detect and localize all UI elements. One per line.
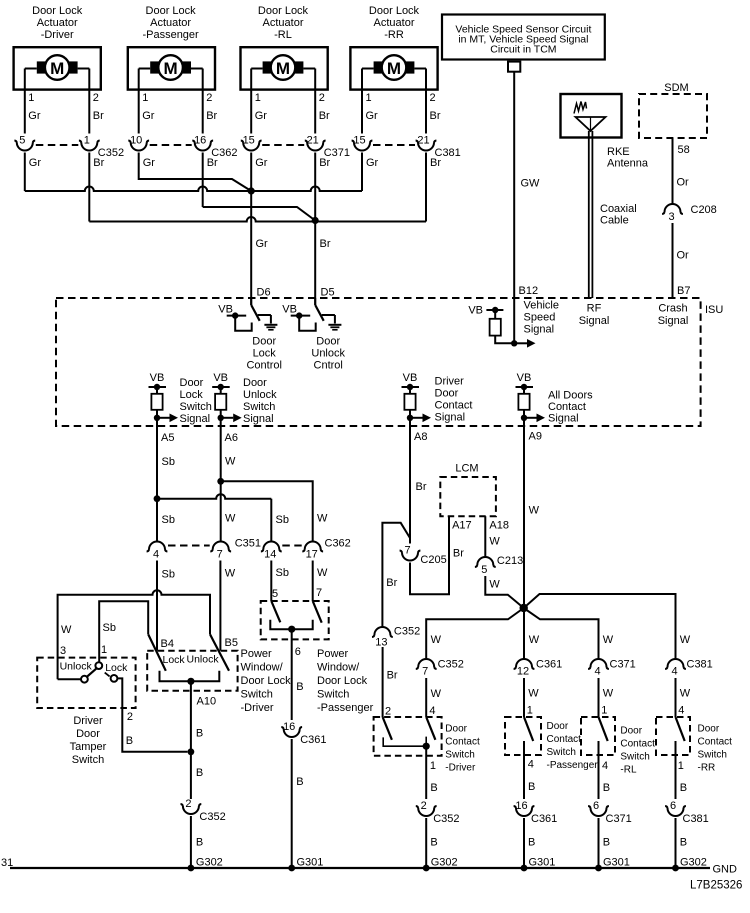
switch blade B4 xyxy=(148,634,166,671)
svg-text:31: 31 xyxy=(1,857,13,869)
svg-text:2: 2 xyxy=(430,92,436,104)
svg-text:B12: B12 xyxy=(519,285,539,297)
svg-text:Actuator: Actuator xyxy=(374,17,415,29)
svg-text:Door Lock: Door Lock xyxy=(258,5,309,17)
ground G302 RR contact xyxy=(672,865,679,872)
svg-text:Door: Door xyxy=(76,728,100,740)
svg-text:6: 6 xyxy=(593,800,599,812)
vehicle speed signal input xyxy=(513,298,515,343)
svg-text:Door: Door xyxy=(435,388,459,400)
svg-text:W: W xyxy=(317,567,328,579)
svg-text:Sb: Sb xyxy=(162,514,175,526)
motor M4 xyxy=(382,55,407,80)
svg-text:Sb: Sb xyxy=(276,514,289,526)
svg-text:Control: Control xyxy=(246,360,281,372)
tamper switch blade xyxy=(87,668,97,676)
RKE antenna box xyxy=(561,94,622,138)
ground rail 31 xyxy=(10,867,710,869)
svg-text:W: W xyxy=(680,688,691,700)
node lock bus junction xyxy=(248,187,255,194)
svg-text:Br: Br xyxy=(320,238,331,250)
svg-text:Door Lock: Door Lock xyxy=(241,675,292,687)
svg-text:Contact: Contact xyxy=(445,737,480,748)
svg-text:Unlock: Unlock xyxy=(243,389,277,401)
svg-text:5: 5 xyxy=(481,564,487,576)
wire Sb C362-14 to passenger switch xyxy=(270,561,272,602)
svg-text:B: B xyxy=(680,837,687,849)
wire 4 black RL xyxy=(598,741,600,799)
wire 6 black xyxy=(291,629,293,720)
ground G302 A10 xyxy=(188,865,195,872)
svg-text:3: 3 xyxy=(60,645,66,657)
svg-text:B: B xyxy=(603,837,610,849)
svg-text:15: 15 xyxy=(243,134,255,146)
svg-text:Cable: Cable xyxy=(600,215,629,227)
svg-text:C361: C361 xyxy=(300,734,326,746)
svg-text:B5: B5 xyxy=(225,637,238,649)
svg-text:A18: A18 xyxy=(489,520,509,532)
connector C352 pin 1 xyxy=(79,141,100,151)
svg-text:16: 16 xyxy=(283,721,295,733)
svg-text:W: W xyxy=(680,634,691,646)
svg-text:Lock: Lock xyxy=(105,662,128,674)
svg-text:W: W xyxy=(489,579,500,591)
svg-text:Gr: Gr xyxy=(255,157,268,169)
wire Sb C351-4 to B4 xyxy=(156,561,158,651)
svg-text:W: W xyxy=(603,688,614,700)
svg-text:A8: A8 xyxy=(414,431,427,443)
svg-text:58: 58 xyxy=(678,144,690,156)
svg-text:Unlock: Unlock xyxy=(311,348,345,360)
svg-text:4: 4 xyxy=(678,705,684,717)
svg-text:7: 7 xyxy=(316,587,322,599)
connector C371 pin 21 xyxy=(305,141,326,151)
motor M2 xyxy=(158,55,183,80)
wire Br RL down to ISU D5 xyxy=(314,153,316,306)
svg-text:Window/: Window/ xyxy=(241,662,284,674)
svg-text:Switch: Switch xyxy=(547,747,576,758)
motor M1 xyxy=(45,55,70,80)
svg-text:1: 1 xyxy=(255,92,261,104)
wire B RR to G302 xyxy=(675,818,677,868)
ISU box xyxy=(56,298,701,426)
wire B to G301 xyxy=(291,739,293,868)
connector C352 pin 7 lower xyxy=(416,659,437,669)
connector C362b pin 17 xyxy=(302,542,323,552)
svg-text:A10: A10 xyxy=(197,696,217,708)
driver PW switch contacts xyxy=(160,671,220,682)
svg-text:Signal: Signal xyxy=(579,315,610,327)
svg-text:7: 7 xyxy=(422,666,428,678)
svg-text:W: W xyxy=(225,456,236,468)
driver contact blade 2 xyxy=(383,717,392,740)
svg-text:Antenna: Antenna xyxy=(607,158,649,170)
svg-text:Sb: Sb xyxy=(162,456,175,468)
svg-text:GND: GND xyxy=(713,864,738,876)
svg-text:4: 4 xyxy=(153,549,159,561)
svg-text:Coaxial: Coaxial xyxy=(600,203,637,215)
connector C361 pin 16 lower xyxy=(514,806,535,816)
svg-text:B: B xyxy=(296,776,303,788)
wire W branch to C362 pin 17 xyxy=(221,481,313,541)
svg-text:G301: G301 xyxy=(297,857,324,869)
wire W C351-7 to B5 xyxy=(219,561,221,651)
svg-text:L7B25326: L7B25326 xyxy=(690,880,742,892)
svg-text:Br: Br xyxy=(93,110,104,122)
svg-text:B: B xyxy=(196,767,203,779)
wire pin2 C352 xyxy=(88,69,90,134)
wire Br A8 to C205 xyxy=(409,426,411,544)
connector C361 pin 16 mid xyxy=(281,727,302,737)
svg-text:Door: Door xyxy=(316,336,340,348)
svg-text:W: W xyxy=(431,634,442,646)
svg-text:Driver: Driver xyxy=(435,376,465,388)
svg-text:W: W xyxy=(225,568,236,580)
wire Br branch to C352 pin 13 xyxy=(382,523,410,627)
svg-text:2: 2 xyxy=(185,798,191,810)
node driver contact junction xyxy=(423,743,430,750)
wire pin2 C362 xyxy=(202,69,204,134)
svg-text:D5: D5 xyxy=(321,287,335,299)
svg-text:B: B xyxy=(680,782,687,794)
svg-text:2: 2 xyxy=(127,711,133,723)
connector C381 pin 4 xyxy=(665,659,686,669)
RL contact blade xyxy=(599,717,608,741)
wire Or to ISU B7 xyxy=(672,223,674,298)
svg-text:1: 1 xyxy=(101,644,107,656)
connector C205 pin 7 xyxy=(400,551,421,561)
svg-text:4: 4 xyxy=(602,760,608,772)
wire Br passenger to unlock bus xyxy=(202,153,204,208)
svg-text:G301: G301 xyxy=(603,857,630,869)
svg-text:B: B xyxy=(196,837,203,849)
wire Br C352-13 to door contact driver xyxy=(382,647,384,717)
connector C352 pin 13 xyxy=(372,627,393,637)
door lock control driver switch xyxy=(250,298,252,305)
svg-text:1: 1 xyxy=(430,760,436,772)
svg-text:1: 1 xyxy=(678,760,684,772)
svg-text:Unlock: Unlock xyxy=(187,654,220,666)
svg-text:B: B xyxy=(528,837,535,849)
door lock actuator RR box xyxy=(350,47,437,89)
ground G302 driver contact xyxy=(423,865,430,872)
svg-text:6: 6 xyxy=(295,646,301,658)
connector C361 pin 12 xyxy=(514,659,535,669)
svg-text:Switch: Switch xyxy=(317,689,349,701)
svg-text:Br: Br xyxy=(319,110,330,122)
passenger contact blade xyxy=(524,717,533,741)
svg-text:VB: VB xyxy=(517,372,532,384)
svg-text:Signal: Signal xyxy=(435,412,466,424)
wire 4 black passenger xyxy=(523,741,525,799)
svg-text:-RR: -RR xyxy=(698,763,716,774)
svg-text:4: 4 xyxy=(429,705,435,717)
door lock actuator Driver box xyxy=(14,47,101,89)
connector C371 dashed link xyxy=(262,144,304,146)
svg-text:Br: Br xyxy=(207,157,218,169)
svg-text:Door Lock: Door Lock xyxy=(317,675,368,687)
svg-text:VB: VB xyxy=(213,372,228,384)
svg-text:VB: VB xyxy=(150,372,165,384)
svg-text:RKE: RKE xyxy=(607,146,630,158)
tamper switch pivot xyxy=(95,662,102,669)
connector C381 pin 6 lower xyxy=(665,806,686,816)
wire pin1 C371 xyxy=(250,69,252,134)
svg-text:2: 2 xyxy=(385,706,391,718)
svg-text:2: 2 xyxy=(421,800,427,812)
connector C208 pin 3 xyxy=(662,204,683,214)
svg-text:Br: Br xyxy=(206,110,217,122)
svg-text:2: 2 xyxy=(319,92,325,104)
svg-text:G301: G301 xyxy=(529,857,556,869)
svg-text:C352: C352 xyxy=(394,626,420,638)
svg-text:C352: C352 xyxy=(438,659,464,671)
svg-text:C361: C361 xyxy=(536,659,562,671)
svg-text:16: 16 xyxy=(515,800,527,812)
driver contact blade 4 xyxy=(426,717,435,740)
svg-text:A6: A6 xyxy=(225,432,238,444)
svg-text:M: M xyxy=(50,59,64,78)
wire Br C205 to LCM A17 xyxy=(410,516,449,594)
door unlock control driver switch xyxy=(314,298,316,305)
connector C351 pin 7 xyxy=(210,542,231,552)
connector C381 pin 15 xyxy=(352,141,373,151)
svg-text:Contact: Contact xyxy=(548,401,586,413)
connector C371 pin 6 lower xyxy=(588,806,609,816)
wire W A9 to junction xyxy=(523,426,525,608)
svg-text:4: 4 xyxy=(528,759,534,771)
svg-text:21: 21 xyxy=(307,134,319,146)
svg-text:Br: Br xyxy=(430,157,441,169)
svg-text:Contact: Contact xyxy=(435,400,473,412)
svg-text:Sb: Sb xyxy=(162,569,175,581)
unlock bus wire xyxy=(89,217,426,222)
svg-text:-Passenger: -Passenger xyxy=(547,760,599,771)
wire W to driver contact pin 4 xyxy=(425,678,427,717)
wire W A6 to C351 xyxy=(220,426,222,542)
svg-text:B: B xyxy=(296,681,303,693)
svg-text:D6: D6 xyxy=(257,287,271,299)
node tamper join xyxy=(188,748,195,755)
svg-text:-Driver: -Driver xyxy=(241,702,274,714)
svg-text:21: 21 xyxy=(417,134,429,146)
svg-text:Door: Door xyxy=(243,377,267,389)
svg-text:G302: G302 xyxy=(680,857,707,869)
svg-text:Speed: Speed xyxy=(524,312,556,324)
svg-text:W: W xyxy=(431,688,442,700)
svg-text:Door Lock: Door Lock xyxy=(369,5,420,17)
svg-text:Unlock: Unlock xyxy=(60,661,93,673)
svg-text:Gr: Gr xyxy=(142,110,155,122)
svg-text:Switch: Switch xyxy=(445,750,474,761)
svg-text:C381: C381 xyxy=(683,813,709,825)
svg-text:Br: Br xyxy=(319,157,330,169)
svg-text:Signal: Signal xyxy=(524,324,555,336)
wire Sb A5 to C351 xyxy=(156,426,158,542)
svg-text:SDM: SDM xyxy=(664,82,688,94)
svg-text:VB: VB xyxy=(282,304,297,316)
svg-text:7: 7 xyxy=(217,549,223,561)
connector C371 pin 15 xyxy=(241,141,262,151)
wire pin1 C362 xyxy=(138,69,140,134)
svg-text:Door: Door xyxy=(620,726,642,737)
wire Br passenger horizontal xyxy=(203,207,316,221)
svg-text:-Passenger: -Passenger xyxy=(142,29,199,41)
wire Br driver to unlock bus xyxy=(88,153,90,222)
door contact switch RR box xyxy=(656,717,690,755)
svg-text:W: W xyxy=(317,513,328,525)
svg-text:Br: Br xyxy=(93,157,104,169)
svg-text:Door: Door xyxy=(445,724,467,735)
svg-text:Contact: Contact xyxy=(547,734,582,745)
switch blade 7 xyxy=(313,601,322,623)
svg-text:Switch: Switch xyxy=(72,754,104,766)
svg-text:Crash: Crash xyxy=(658,303,687,315)
svg-text:Gr: Gr xyxy=(256,238,269,250)
wire W junction down to C361 xyxy=(523,608,525,659)
svg-text:2: 2 xyxy=(93,92,99,104)
wire W LCM A18 to C213 xyxy=(484,516,486,557)
wire pin1 C352 xyxy=(24,69,26,134)
wire B passenger to G301 xyxy=(523,818,525,868)
passenger PW switch contacts xyxy=(270,620,312,630)
svg-text:VB: VB xyxy=(403,372,418,384)
node passenger PW junction xyxy=(288,626,295,633)
connector C351 dashed link xyxy=(168,545,210,547)
switch blade B5 xyxy=(210,634,229,671)
connector C352 pin 5 xyxy=(14,141,35,151)
node A5 branch xyxy=(154,495,161,502)
svg-text:14: 14 xyxy=(264,549,276,561)
svg-text:M: M xyxy=(276,59,290,78)
svg-text:5: 5 xyxy=(272,588,278,600)
wire W junction to C371 xyxy=(524,608,599,659)
wire B driver to G302 xyxy=(425,818,427,868)
connector C362 pin 10 xyxy=(128,141,149,151)
wire Gr passenger to lock bus xyxy=(139,153,252,192)
vehicle speed sensor circuit box xyxy=(442,15,605,60)
svg-text:Power: Power xyxy=(241,648,273,660)
wire W junction to C381 xyxy=(524,594,676,659)
svg-text:GW: GW xyxy=(521,178,541,190)
ground G301 passenger PW xyxy=(288,865,295,872)
svg-text:-Passenger: -Passenger xyxy=(317,702,374,714)
LCM box xyxy=(440,477,496,516)
svg-text:-Driver: -Driver xyxy=(41,29,74,41)
coaxial cable wires xyxy=(588,131,590,298)
svg-text:Driver: Driver xyxy=(73,715,103,727)
svg-text:12: 12 xyxy=(517,666,529,678)
svg-text:C371: C371 xyxy=(606,813,632,825)
door contact switch driver box xyxy=(374,717,442,756)
svg-text:C213: C213 xyxy=(497,555,523,567)
wire B RL to G301 xyxy=(598,818,600,868)
wire tamper pin 2 to A10 xyxy=(117,678,187,751)
svg-text:B: B xyxy=(528,781,535,793)
wire A10 black to ground xyxy=(190,681,192,799)
svg-text:Switch: Switch xyxy=(243,401,275,413)
svg-text:Signal: Signal xyxy=(243,413,274,425)
svg-text:Power: Power xyxy=(317,648,349,660)
svg-text:Sb: Sb xyxy=(103,622,116,634)
wire Gr driver to lock bus xyxy=(24,153,26,192)
svg-text:Circuit in TCM: Circuit in TCM xyxy=(490,44,556,56)
antenna symbol xyxy=(576,117,606,131)
wire SDM pin 58 xyxy=(672,138,674,204)
svg-text:Door: Door xyxy=(180,377,204,389)
svg-text:W: W xyxy=(529,505,540,517)
svg-text:VB: VB xyxy=(218,304,233,316)
node unlock bus junction xyxy=(312,217,319,224)
svg-text:1: 1 xyxy=(601,705,607,717)
svg-text:C205: C205 xyxy=(420,554,446,566)
svg-text:Switch: Switch xyxy=(698,750,727,761)
connector C362 dashed link xyxy=(150,144,192,146)
svg-text:1: 1 xyxy=(527,705,533,717)
node A6 branch xyxy=(217,478,224,485)
wire pin1 C381 xyxy=(361,69,363,134)
svg-text:Sb: Sb xyxy=(276,567,289,579)
svg-text:Actuator: Actuator xyxy=(263,17,304,29)
wire W to RR contact pin 4 xyxy=(675,678,677,717)
svg-text:Actuator: Actuator xyxy=(150,17,191,29)
svg-text:W: W xyxy=(528,688,539,700)
svg-text:7: 7 xyxy=(404,544,410,556)
svg-text:C352: C352 xyxy=(433,813,459,825)
wire B to G302 xyxy=(190,816,192,868)
svg-text:G302: G302 xyxy=(196,857,223,869)
svg-text:3: 3 xyxy=(668,211,674,223)
svg-text:Signal: Signal xyxy=(658,315,689,327)
svg-text:Vehicle: Vehicle xyxy=(524,300,559,312)
wire pin2 C371 xyxy=(314,69,316,134)
svg-text:17: 17 xyxy=(306,549,318,561)
svg-text:Window/: Window/ xyxy=(317,662,360,674)
wire Gr RR to lock bus xyxy=(361,153,363,192)
svg-text:Signal: Signal xyxy=(548,413,579,425)
svg-text:Cntrol: Cntrol xyxy=(314,360,343,372)
svg-text:Gr: Gr xyxy=(255,110,268,122)
door lock actuator Passenger box xyxy=(128,47,215,89)
svg-text:1: 1 xyxy=(142,92,148,104)
connector C362b pin 14 xyxy=(261,542,282,552)
svg-text:B: B xyxy=(430,837,437,849)
door lock actuator RL box xyxy=(241,47,328,89)
connector C213 pin 5 xyxy=(475,557,496,567)
svg-text:Br: Br xyxy=(453,548,464,560)
svg-text:W: W xyxy=(489,536,500,548)
svg-text:B: B xyxy=(603,782,610,794)
svg-text:C351: C351 xyxy=(235,538,261,550)
connector C351 pin 4 xyxy=(147,542,168,552)
svg-text:Or: Or xyxy=(677,177,690,189)
svg-text:10: 10 xyxy=(130,134,142,146)
wire W C362-17 to passenger switch xyxy=(312,561,314,602)
svg-text:All Doors: All Doors xyxy=(548,390,593,402)
svg-text:2: 2 xyxy=(206,92,212,104)
connector C362 pin 16 xyxy=(192,141,213,151)
wire GW to ISU B12 xyxy=(513,72,515,298)
svg-text:B: B xyxy=(430,782,437,794)
connector C381 pin 21 xyxy=(416,141,437,151)
svg-text:16: 16 xyxy=(194,134,206,146)
svg-text:4: 4 xyxy=(671,666,677,678)
svg-text:1: 1 xyxy=(28,92,34,104)
svg-text:5: 5 xyxy=(19,134,25,146)
svg-text:Br: Br xyxy=(387,670,398,682)
wire W to RL contact pin 1 xyxy=(598,678,600,717)
svg-text:Switch: Switch xyxy=(620,752,649,763)
